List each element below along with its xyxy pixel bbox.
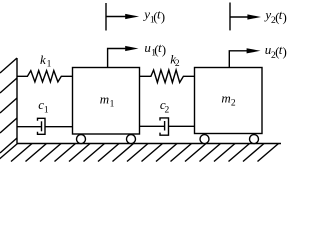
svg-text:): ) <box>162 42 166 57</box>
svg-text:2: 2 <box>175 59 180 69</box>
svg-text:): ) <box>283 9 287 24</box>
svg-text:1: 1 <box>110 99 115 109</box>
svg-text:1: 1 <box>44 105 49 115</box>
svg-text:1: 1 <box>47 59 52 69</box>
svg-text:): ) <box>283 44 287 59</box>
svg-text:): ) <box>161 9 165 24</box>
svg-text:2: 2 <box>231 99 236 109</box>
svg-text:m: m <box>100 91 109 106</box>
svg-text:k: k <box>40 52 46 67</box>
svg-text:m: m <box>221 91 230 106</box>
svg-text:2: 2 <box>165 105 170 115</box>
